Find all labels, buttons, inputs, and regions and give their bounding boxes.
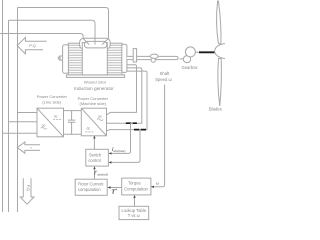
svg-text:v: v [31,145,33,149]
svg-text:Induction generator: Induction generator [74,86,114,91]
svg-text:dc: dc [54,114,58,118]
arrowhead measured current 1 [109,152,112,154]
P,Q export block arrow [17,37,46,54]
arrowhead torque reference [107,186,110,189]
wire grid vertical V3 [17,8,19,213]
terminal pill [84,41,106,48]
arrowheads [93,136,154,198]
wire grid bus H1 to stator phase A [18,8,109,39]
generator terminal box [82,43,107,75]
measured current wire 2 to switch control [110,130,141,163]
arrowhead torque up [133,195,135,198]
lookup table box [119,206,149,219]
turbine upper blade [217,1,221,44]
rotor wire phase 2 [107,68,142,123]
dc link top rail [64,110,82,112]
high speed shaft (dark) [199,51,216,53]
grid wire to line converter phase B [9,121,38,123]
svg-text:Shaft: Shaft [160,71,171,76]
wire grid bus H3 to stator phase C [0,34,83,39]
turbine hub nose [215,44,225,59]
measured current wire 1 to switch control [110,123,131,153]
arrowhead pulses up [93,136,95,139]
svg-text:dc: dc [87,127,91,131]
svg-text:Torque: Torque [128,180,141,185]
generator right end cap [122,44,127,72]
svg-text:I*abc(ref): I*abc(ref) [93,169,108,176]
svg-text:Computation: Computation [124,186,148,191]
grid wire to line converter phase A [18,112,38,114]
torque wire lookup to torque computation [134,198,136,207]
svg-text:Speed ω: Speed ω [155,77,172,82]
svg-text:control: control [88,158,101,163]
rotor current computation box [75,179,107,195]
svg-text:Rotor Current: Rotor Current [78,182,104,187]
stator lead C into pill [83,39,89,45]
rotor P,Q down arrow [20,178,34,204]
speed sensor pickup circle [151,58,155,62]
gearbox small gear [183,56,190,63]
svg-text:computation: computation [78,187,101,192]
generator terminal dome [80,38,111,49]
rotor wire phase 1 [107,65,137,115]
torque computation box [122,178,151,195]
generator left shaft stub notch [58,57,60,59]
wire grid vertical V1 [2,0,4,212]
grid wire to line converter phase C [3,132,38,134]
turbine lower blade [218,59,221,107]
generator body with cooling fins [68,43,122,75]
svg-text:Gearbox: Gearbox [181,65,198,70]
reference current wire [94,169,96,179]
svg-text:P,Q: P,Q [26,185,31,191]
svg-text:T vs ω: T vs ω [128,213,141,218]
switch control box [86,149,109,166]
generator base [66,75,124,78]
dc link bottom rail [64,133,82,135]
speed sensor ellipse [150,54,158,58]
machine side converter box [81,108,106,136]
stator lead B into pill [94,38,96,44]
svg-text:Wound rotor: Wound rotor [84,80,107,85]
wire grid bus H2 to stator phase B [9,20,96,38]
svg-text:(Machine side): (Machine side) [80,101,107,106]
speed signal wire [152,85,165,187]
arrowhead reference current up [93,166,95,169]
generator left shaft stub [60,56,63,60]
stator lead A into pill [102,39,108,45]
gearbox large gear [185,47,195,57]
svg-text:ω: ω [156,182,159,186]
low-speed shaft [127,56,178,59]
line side converter box [37,108,64,137]
shaft coupling [133,49,136,62]
wire grid vertical V2 [8,20,10,212]
arrowhead measured current 2 [109,161,112,163]
generator left end cap [63,45,69,73]
shaft stub into gearbox [180,58,184,60]
current sensor ticks phase 3 [134,129,146,131]
pulses wire converter to switch control [93,136,95,150]
dc link capacitor [68,111,75,135]
grid voltage small arrow [17,142,40,153]
gearbox output stub [196,51,199,53]
svg-text:Blades: Blades [209,107,222,112]
svg-text:ac: ac [98,115,102,119]
torque reference wire [108,187,122,189]
current sensor ticks phase 2 [126,122,137,124]
arrowhead speed into torque box [151,186,154,188]
svg-text:P,Q: P,Q [29,43,35,48]
svg-text:(Line side): (Line side) [42,99,62,104]
svg-text:ac: ac [42,124,46,128]
svg-text:T*: T* [111,189,117,196]
svg-text:Iabc(mes): Iabc(mes) [111,147,126,153]
rotor wire phase 3 [107,71,148,131]
